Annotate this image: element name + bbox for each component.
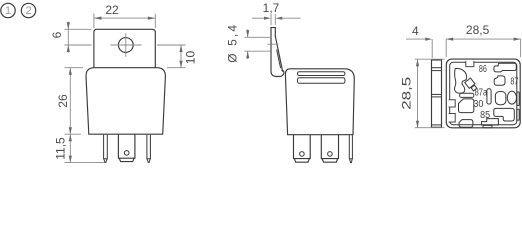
inner wall left notch lower — [449, 114, 456, 123]
vertical thin bar center — [487, 89, 491, 104]
bracket gusset inner diagonal — [277, 50, 281, 69]
bracket bar cap top line 2 — [432, 70, 442, 72]
hole crosshair vertical — [125, 33, 127, 57]
cavity 87 oval — [507, 91, 516, 104]
side pin 1 (wide) — [294, 135, 311, 162]
svg-text:6: 6 — [50, 31, 64, 38]
dim 4 line and arrow — [406, 38, 425, 40]
callout circle 1 — [1, 3, 15, 17]
svg-text:85: 85 — [480, 110, 490, 121]
svg-text:26: 26 — [56, 94, 70, 108]
bracket gusset outer diagonal — [275, 36, 282, 71]
side pin 2 hole — [328, 152, 333, 157]
dim dia 5,4 line and arrows — [247, 29, 249, 37]
relay body side — [285, 69, 354, 135]
svg-text:1,7: 1,7 — [263, 1, 280, 15]
svg-text:86: 86 — [479, 64, 487, 75]
hole crosshair horizontal — [111, 44, 142, 46]
bottom L bar — [482, 119, 499, 125]
svg-text:Ø 5,4: Ø 5,4 — [225, 23, 239, 63]
cavity 86 slot — [494, 63, 516, 72]
pin middle front (terminal 30) — [118, 135, 134, 162]
inner wall top notch — [466, 61, 474, 67]
bracket edge bar — [432, 60, 442, 127]
side pin 3 (narrow) — [349, 135, 352, 162]
svg-text:87a: 87a — [475, 88, 488, 99]
dim 6 extension lines — [65, 28, 92, 30]
right wall slot upper — [517, 92, 519, 106]
side vent slot upper — [298, 72, 345, 76]
dim 28,5 horizontal extension lines — [445, 39, 447, 57]
hole centerline across bracket — [268, 43, 279, 45]
dim 1,7 extension lines — [270, 14, 272, 25]
svg-text:2: 2 — [25, 5, 31, 17]
cavity 87 blob — [494, 76, 505, 85]
bracket side profile — [271, 28, 275, 72]
svg-text:28,5: 28,5 — [400, 76, 414, 109]
side vent slot lower — [298, 78, 345, 84]
pin left front — [104, 135, 108, 163]
svg-text:10: 10 — [184, 51, 198, 65]
bracket bar middle line 2 — [432, 96, 442, 98]
dim 28,5 vertical line and arrows — [417, 59, 419, 128]
dim 11,5 line and arrows — [69, 134, 71, 162]
hole edge line top — [245, 36, 272, 38]
cavity 87 slot round rect — [495, 92, 506, 105]
dim 10 line and arrows — [180, 45, 182, 68]
side pin 1 hole — [300, 152, 305, 157]
cavity 30 big stepped slot — [494, 108, 515, 121]
svg-text:28,5: 28,5 — [466, 23, 490, 37]
inner wall left notch upper — [449, 100, 456, 107]
svg-text:4: 4 — [412, 24, 419, 38]
rotated square cavity — [465, 78, 475, 88]
dim 10 extension lines — [157, 44, 186, 46]
right wall slot lower — [517, 109, 519, 120]
bottom wall slot — [483, 125, 492, 127]
cavity 87a thin bar — [460, 93, 474, 97]
svg-text:1: 1 — [5, 5, 11, 17]
callout circle 2 — [21, 3, 35, 17]
cavity 85 D slot — [459, 120, 473, 128]
svg-text:87: 87 — [510, 77, 518, 88]
dim 26 extension lines — [65, 67, 84, 69]
coil cavity claw — [455, 68, 467, 93]
dim 6 line and arrows — [67, 22, 69, 53]
bracket bar bottom cap line — [432, 124, 442, 126]
relay body front — [86, 68, 165, 135]
dim 28,5 vertical extension lines — [415, 58, 445, 60]
socket outer outline — [446, 59, 520, 128]
bracket foot curve — [271, 70, 284, 76]
dim 26 line and arrows — [69, 68, 71, 135]
pin middle hole — [124, 151, 129, 156]
mounting tab front — [94, 29, 155, 67]
cavity 30 pentagon — [459, 99, 474, 113]
svg-text:11,5: 11,5 — [54, 137, 68, 160]
bracket bar middle line 1 — [432, 93, 442, 95]
dim 22 extension lines — [93, 14, 95, 28]
socket inner wall — [450, 62, 517, 124]
dim 22 line — [94, 17, 155, 19]
dim 1,7 line and arrows — [252, 17, 264, 19]
dim 28,5 horizontal line and arrows — [446, 38, 520, 40]
mounting hole front — [118, 38, 133, 53]
svg-text:22: 22 — [105, 3, 119, 17]
hole edge line bottom — [245, 50, 271, 52]
svg-text:30: 30 — [473, 99, 483, 110]
pin right front — [147, 135, 151, 163]
side pin 2 (wide) — [321, 135, 338, 162]
rotated square tab — [471, 85, 477, 91]
bracket bar cap top line 1 — [432, 67, 442, 69]
